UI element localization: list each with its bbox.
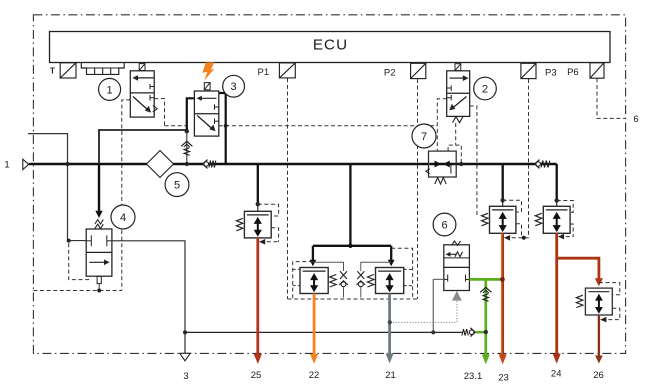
svg-text:23: 23 (498, 372, 509, 383)
wire: supply corner down to reducer R24 (556, 164, 558, 199)
valve 7 spring below (435, 178, 446, 185)
group enclosure bottom dashed (288, 298, 418, 300)
orifice + ball check right (bypass) (361, 262, 391, 271)
output line 24 (red) + branch to R26 (555, 233, 558, 356)
valve 6 gray pilot triangle (452, 291, 462, 301)
valve 7 inner tick (450, 165, 452, 174)
valve 7 body (429, 151, 457, 177)
svg-text:T: T (50, 67, 55, 76)
junction dot main/valve3 (185, 162, 189, 166)
long horizontal dashed pilot line (165, 125, 187, 127)
solenoid square valve 3 (204, 83, 210, 90)
R23 feedback dashed loop (503, 200, 522, 212)
valve 7 chevron lower-left (426, 169, 430, 174)
svg-text:ECU: ECU (313, 36, 348, 53)
connector square P6 (590, 63, 604, 78)
valve 1 bottom-cell diagonal arrow (133, 97, 149, 111)
connector block (4-pin) under ECU (81, 63, 124, 75)
stub line top-left to border (28, 134, 68, 241)
check valve CV2 on main line right (ball+spring) (535, 160, 550, 169)
reducer valve R22 (300, 268, 328, 294)
check chevron+spring on 23.1 (480, 287, 491, 292)
lightning bolt (fault marker) (202, 62, 214, 80)
reducer valve R23 (490, 206, 516, 233)
valve 1 bottom-cell chevron (153, 106, 157, 112)
svg-text:25: 25 (251, 370, 262, 381)
valve 2 body (447, 71, 470, 117)
valve 3 body (194, 91, 218, 136)
valve 6 bottom-cell port ticks (447, 275, 449, 282)
wire: supply branch to reducer R25 (257, 164, 259, 203)
main supply line (thick) (29, 163, 557, 166)
re-draw main line through valve 7 (429, 163, 455, 165)
valve 7 facing arrows (435, 161, 442, 168)
dashed pilot loop valve 4 left feedback (69, 243, 89, 279)
solenoid square valve 1 (139, 64, 145, 71)
junction dot R25 input (256, 202, 260, 206)
valve 4 top-cell port ticks (90, 235, 92, 246)
tank symbol node 3 (180, 353, 190, 361)
output line 23 (red) (501, 233, 503, 356)
valve 2 port ticks left (450, 85, 452, 91)
circle label 1 (99, 78, 121, 100)
output line 25 (red) (256, 238, 259, 356)
valve 4 body (86, 229, 112, 276)
check valve CV1 on main line (ball+spring) (203, 160, 216, 169)
valve 6 top-cell arrow + coil (449, 253, 457, 255)
valve 4 bottom-cell arrow (89, 261, 105, 263)
valve 2 bottom-cell diagonal arrow (452, 97, 467, 109)
reducer valve R26 (585, 288, 612, 315)
filter F1 (diamond) on main line (147, 151, 174, 178)
connector square P1 (279, 63, 295, 78)
svg-text:26: 26 (593, 370, 604, 381)
svg-text:6: 6 (441, 219, 447, 231)
thick feed arrow into valve 4 (99, 129, 187, 131)
svg-text:P2: P2 (384, 67, 396, 78)
svg-text:22: 22 (309, 370, 320, 381)
valve 6 body (444, 245, 470, 291)
junction dot R23 input (501, 198, 505, 202)
thin wire blob to main line (186, 131, 188, 164)
output line 22 (orange) (313, 294, 316, 357)
dashed pilot: valve 1 left to valve 4 (122, 100, 131, 291)
wire: supply branch to valve group 22/21 (349, 164, 351, 246)
svg-text:3: 3 (183, 371, 188, 382)
svg-text:24: 24 (551, 368, 562, 379)
gray wire valve6 left port to drain rail (433, 279, 444, 332)
svg-text:5: 5 (174, 180, 180, 192)
check valve on drain to pilot gallery (462, 329, 468, 336)
reducer valve R24 (543, 206, 570, 233)
R21 right dashed stubs (391, 248, 412, 299)
solenoid square valve 2 (455, 64, 461, 71)
circle label 3 (223, 75, 245, 97)
dashed pilot wire from P3 down (528, 79, 530, 238)
circle label 7 (412, 124, 436, 148)
valve 3 thick left loop wire (187, 98, 195, 132)
valve 6 top spring (452, 241, 461, 246)
svg-text:P1: P1 (257, 67, 269, 78)
valve 4 bottom stub (97, 276, 101, 283)
return wire valve4 to tank and drain rail (112, 241, 185, 353)
dashed pilot rail into valve 4 (33, 290, 121, 292)
gray dotted pilot wire valve6 to line 21 (390, 301, 457, 322)
border frame (machine boundary, dash-dot) (33, 15, 625, 354)
svg-text:1: 1 (107, 84, 113, 96)
valve 1 body (130, 71, 154, 117)
thick T-feed to proportional group (313, 245, 391, 247)
junction dot pilot tap (459, 162, 463, 166)
wire thin into reducer R25 (257, 204, 259, 211)
R25 feedback dashed loop (258, 204, 279, 216)
orifice + ball check left (bypass) (313, 262, 344, 271)
circle label 6 (433, 213, 456, 236)
svg-text:23.1: 23.1 (464, 371, 483, 382)
svg-text:7: 7 (421, 131, 427, 143)
valve 3 port ticks right (214, 104, 216, 110)
valve 1 port ticks right (149, 84, 151, 90)
check (chevron+spring) into valve 3 (181, 141, 192, 146)
wire thin into reducer R24 (556, 201, 558, 207)
green stub from drain check (476, 331, 486, 334)
output line 21 (gray) (388, 294, 391, 357)
R26 feedback dashed loop (599, 283, 620, 295)
svg-text:3: 3 (231, 81, 237, 93)
dashed pilot: valve 7 tap (448, 145, 461, 163)
connector square T (60, 63, 76, 78)
green vertical line 23.1 (484, 279, 487, 356)
inlet open arrow at node 1 (23, 159, 29, 169)
dashed wire P6 to node 6 on border (597, 78, 625, 118)
valve 1 top-cell arrow (136, 77, 154, 79)
svg-text:P3: P3 (545, 67, 557, 78)
valve 3 top-cell arrow (200, 97, 217, 99)
junction dot dashed/valve3 right (224, 124, 228, 128)
valve 3 thick right wire to main line (219, 93, 226, 164)
reducer valve R21 (376, 268, 404, 294)
connector square P2 (411, 63, 426, 78)
svg-text:P6: P6 (567, 67, 579, 78)
wire: supply branch to reducer R23 (502, 164, 504, 199)
junction dot valve 4 pilot (97, 289, 101, 293)
svg-text:1: 1 (4, 159, 9, 170)
circle label 4 (111, 205, 135, 229)
dashed pilot: valve 2 spring drain (455, 123, 457, 145)
junction dot main/stub (65, 162, 69, 166)
R22 left dashed stubs (293, 262, 313, 299)
junction dot green/23 (500, 277, 505, 282)
green wire valve6 to line 23 (469, 278, 502, 281)
circle label 5 (165, 173, 189, 197)
dashed pilot: valve 2 right to R23 spring (470, 106, 477, 216)
valve 2 spring below (453, 117, 464, 123)
valve 3 bottom-cell diagonal arrow (197, 116, 213, 130)
dashed pilot: valve 2 left ports (437, 99, 446, 151)
wire thin into reducer R23 (502, 200, 504, 206)
junction blob valve3 left (185, 129, 189, 133)
circle label 2 (474, 77, 497, 100)
svg-text:21: 21 (385, 370, 396, 381)
output line 26 (dark red) (598, 315, 600, 356)
R24 feedback dashed loop (557, 201, 574, 213)
svg-text:6: 6 (633, 114, 638, 125)
svg-text:2: 2 (482, 83, 488, 95)
reducer valve R25 (244, 211, 271, 238)
junction dot R24 input (555, 198, 559, 202)
valve 2 top-cell arrow (450, 77, 465, 79)
ECU U1 box (50, 32, 611, 63)
valve 4 top spring (95, 220, 103, 224)
connector square P3 (521, 63, 536, 78)
dashed pilot: valve 1 right side drop (154, 99, 164, 126)
dashed pilot wire from P2 down (417, 79, 419, 299)
drain rail (thin) (185, 331, 462, 333)
wire main line to valve 4 left port (67, 239, 71, 243)
dashed pilot wire from P1 down (287, 78, 289, 299)
svg-text:4: 4 (120, 212, 126, 224)
